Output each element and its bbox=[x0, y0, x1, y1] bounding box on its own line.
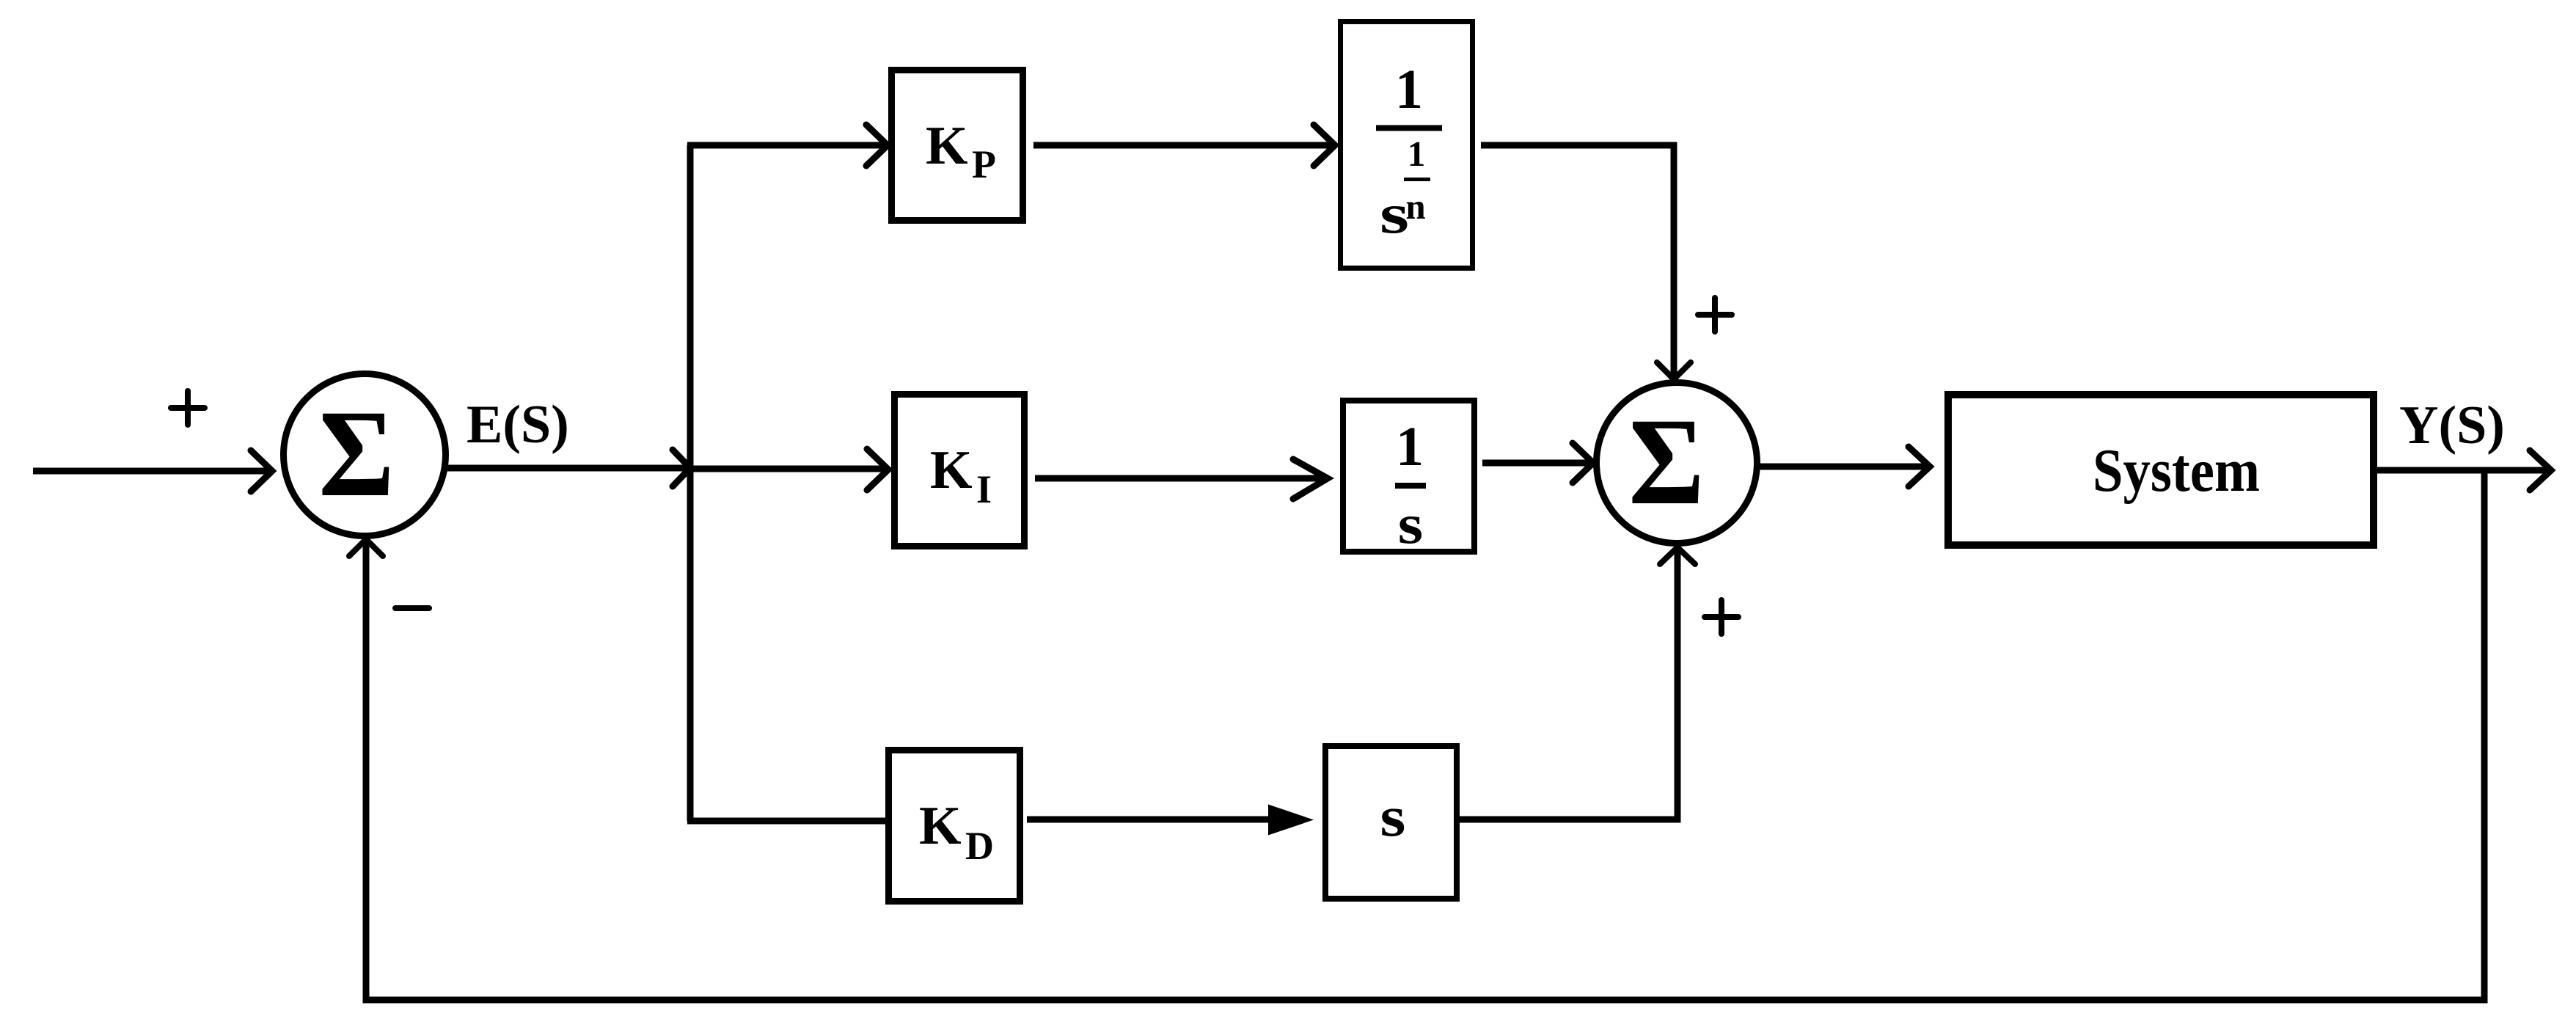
arrowhead output bbox=[2530, 450, 2551, 490]
wire: KI to 1/s block bbox=[1035, 475, 1325, 482]
node: plus sign at S2 bottom input bbox=[1705, 600, 1738, 634]
block B3: s bbox=[1325, 746, 1457, 899]
arrowhead into KP bbox=[866, 125, 888, 166]
svg-text:Σ: Σ bbox=[318, 384, 394, 522]
svg-text:I: I bbox=[976, 467, 992, 511]
block KP bbox=[892, 70, 1023, 221]
svg-text:D: D bbox=[965, 824, 994, 868]
node: minus sign at feedback input of S1 bbox=[395, 605, 429, 611]
block System bbox=[1948, 395, 2374, 545]
node: plus sign at S2 top input bbox=[1698, 298, 1732, 332]
arrowhead into S2 left bbox=[1573, 443, 1593, 483]
summing junction S1 (circle) bbox=[284, 374, 446, 536]
wire: 1/s to S2 left bbox=[1482, 460, 1591, 467]
svg-text:Σ: Σ bbox=[1628, 392, 1704, 530]
block KD bbox=[889, 750, 1020, 902]
svg-text:1: 1 bbox=[1395, 59, 1423, 120]
svg-text:s: s bbox=[1380, 785, 1406, 848]
block B1: 1/s^(1/n) bbox=[1341, 22, 1473, 269]
svg-text:s: s bbox=[1398, 492, 1423, 555]
summing junction S2 (circle) bbox=[1597, 383, 1757, 544]
wire: top branch to KP bbox=[687, 142, 885, 149]
wire: input line into summing junction S1 bbox=[33, 468, 270, 475]
svg-text:K: K bbox=[930, 440, 973, 500]
svg-text:System: System bbox=[2093, 437, 2260, 505]
wire: s block to S2 bottom (right then up) bbox=[1460, 549, 1677, 819]
svg-text:s: s bbox=[1380, 182, 1409, 245]
arrowhead (filled triangle) into s block bbox=[1268, 805, 1314, 836]
svg-text:P: P bbox=[972, 142, 996, 186]
block KI bbox=[895, 395, 1025, 547]
wire: E(S) line from S1 to branch node bbox=[447, 465, 689, 472]
arrowhead into S2 bottom bbox=[1660, 547, 1695, 564]
svg-text:1: 1 bbox=[1408, 134, 1426, 174]
svg-text:K: K bbox=[919, 796, 962, 856]
wire: branch vertical line bbox=[687, 145, 694, 821]
svg-text:K: K bbox=[926, 116, 968, 176]
wire: feedback path from output branch down, across bottom, and up into S1 bbox=[366, 470, 2484, 1000]
arrowhead: input into S1 bbox=[251, 450, 272, 492]
wire: System output with Y(S) bbox=[2377, 467, 2549, 474]
wire: B1 to S2 (right then down) bbox=[1481, 145, 1674, 377]
sigma symbol of S1 bbox=[318, 384, 394, 522]
arrowhead into 1/s bbox=[1293, 459, 1328, 499]
wire: middle branch to KD bbox=[687, 818, 885, 825]
arrowhead into System bbox=[1909, 447, 1930, 486]
arrowhead into S1 bottom bbox=[349, 539, 383, 556]
arrowhead into B1 bbox=[1314, 125, 1335, 166]
svg-text:E(S): E(S) bbox=[466, 395, 569, 455]
wire: E(S) continuation into KI bbox=[690, 466, 886, 472]
node: plus sign at input of S1 bbox=[171, 391, 205, 425]
block B2: 1/s bbox=[1343, 401, 1474, 552]
arrowhead into S2 top bbox=[1657, 362, 1691, 379]
svg-text:n: n bbox=[1405, 186, 1425, 227]
wire: S2 to System block bbox=[1760, 464, 1928, 470]
arrowhead into KI bbox=[867, 449, 888, 490]
wire: KD to s block bbox=[1027, 817, 1271, 823]
sigma symbol of S2 bbox=[1628, 392, 1704, 530]
svg-text:Y(S): Y(S) bbox=[2399, 395, 2505, 456]
arrowhead at branch node bbox=[673, 450, 690, 486]
label of B3 bbox=[1380, 785, 1406, 848]
svg-text:1: 1 bbox=[1396, 416, 1424, 478]
wire: KP to block B1 bbox=[1033, 142, 1333, 149]
